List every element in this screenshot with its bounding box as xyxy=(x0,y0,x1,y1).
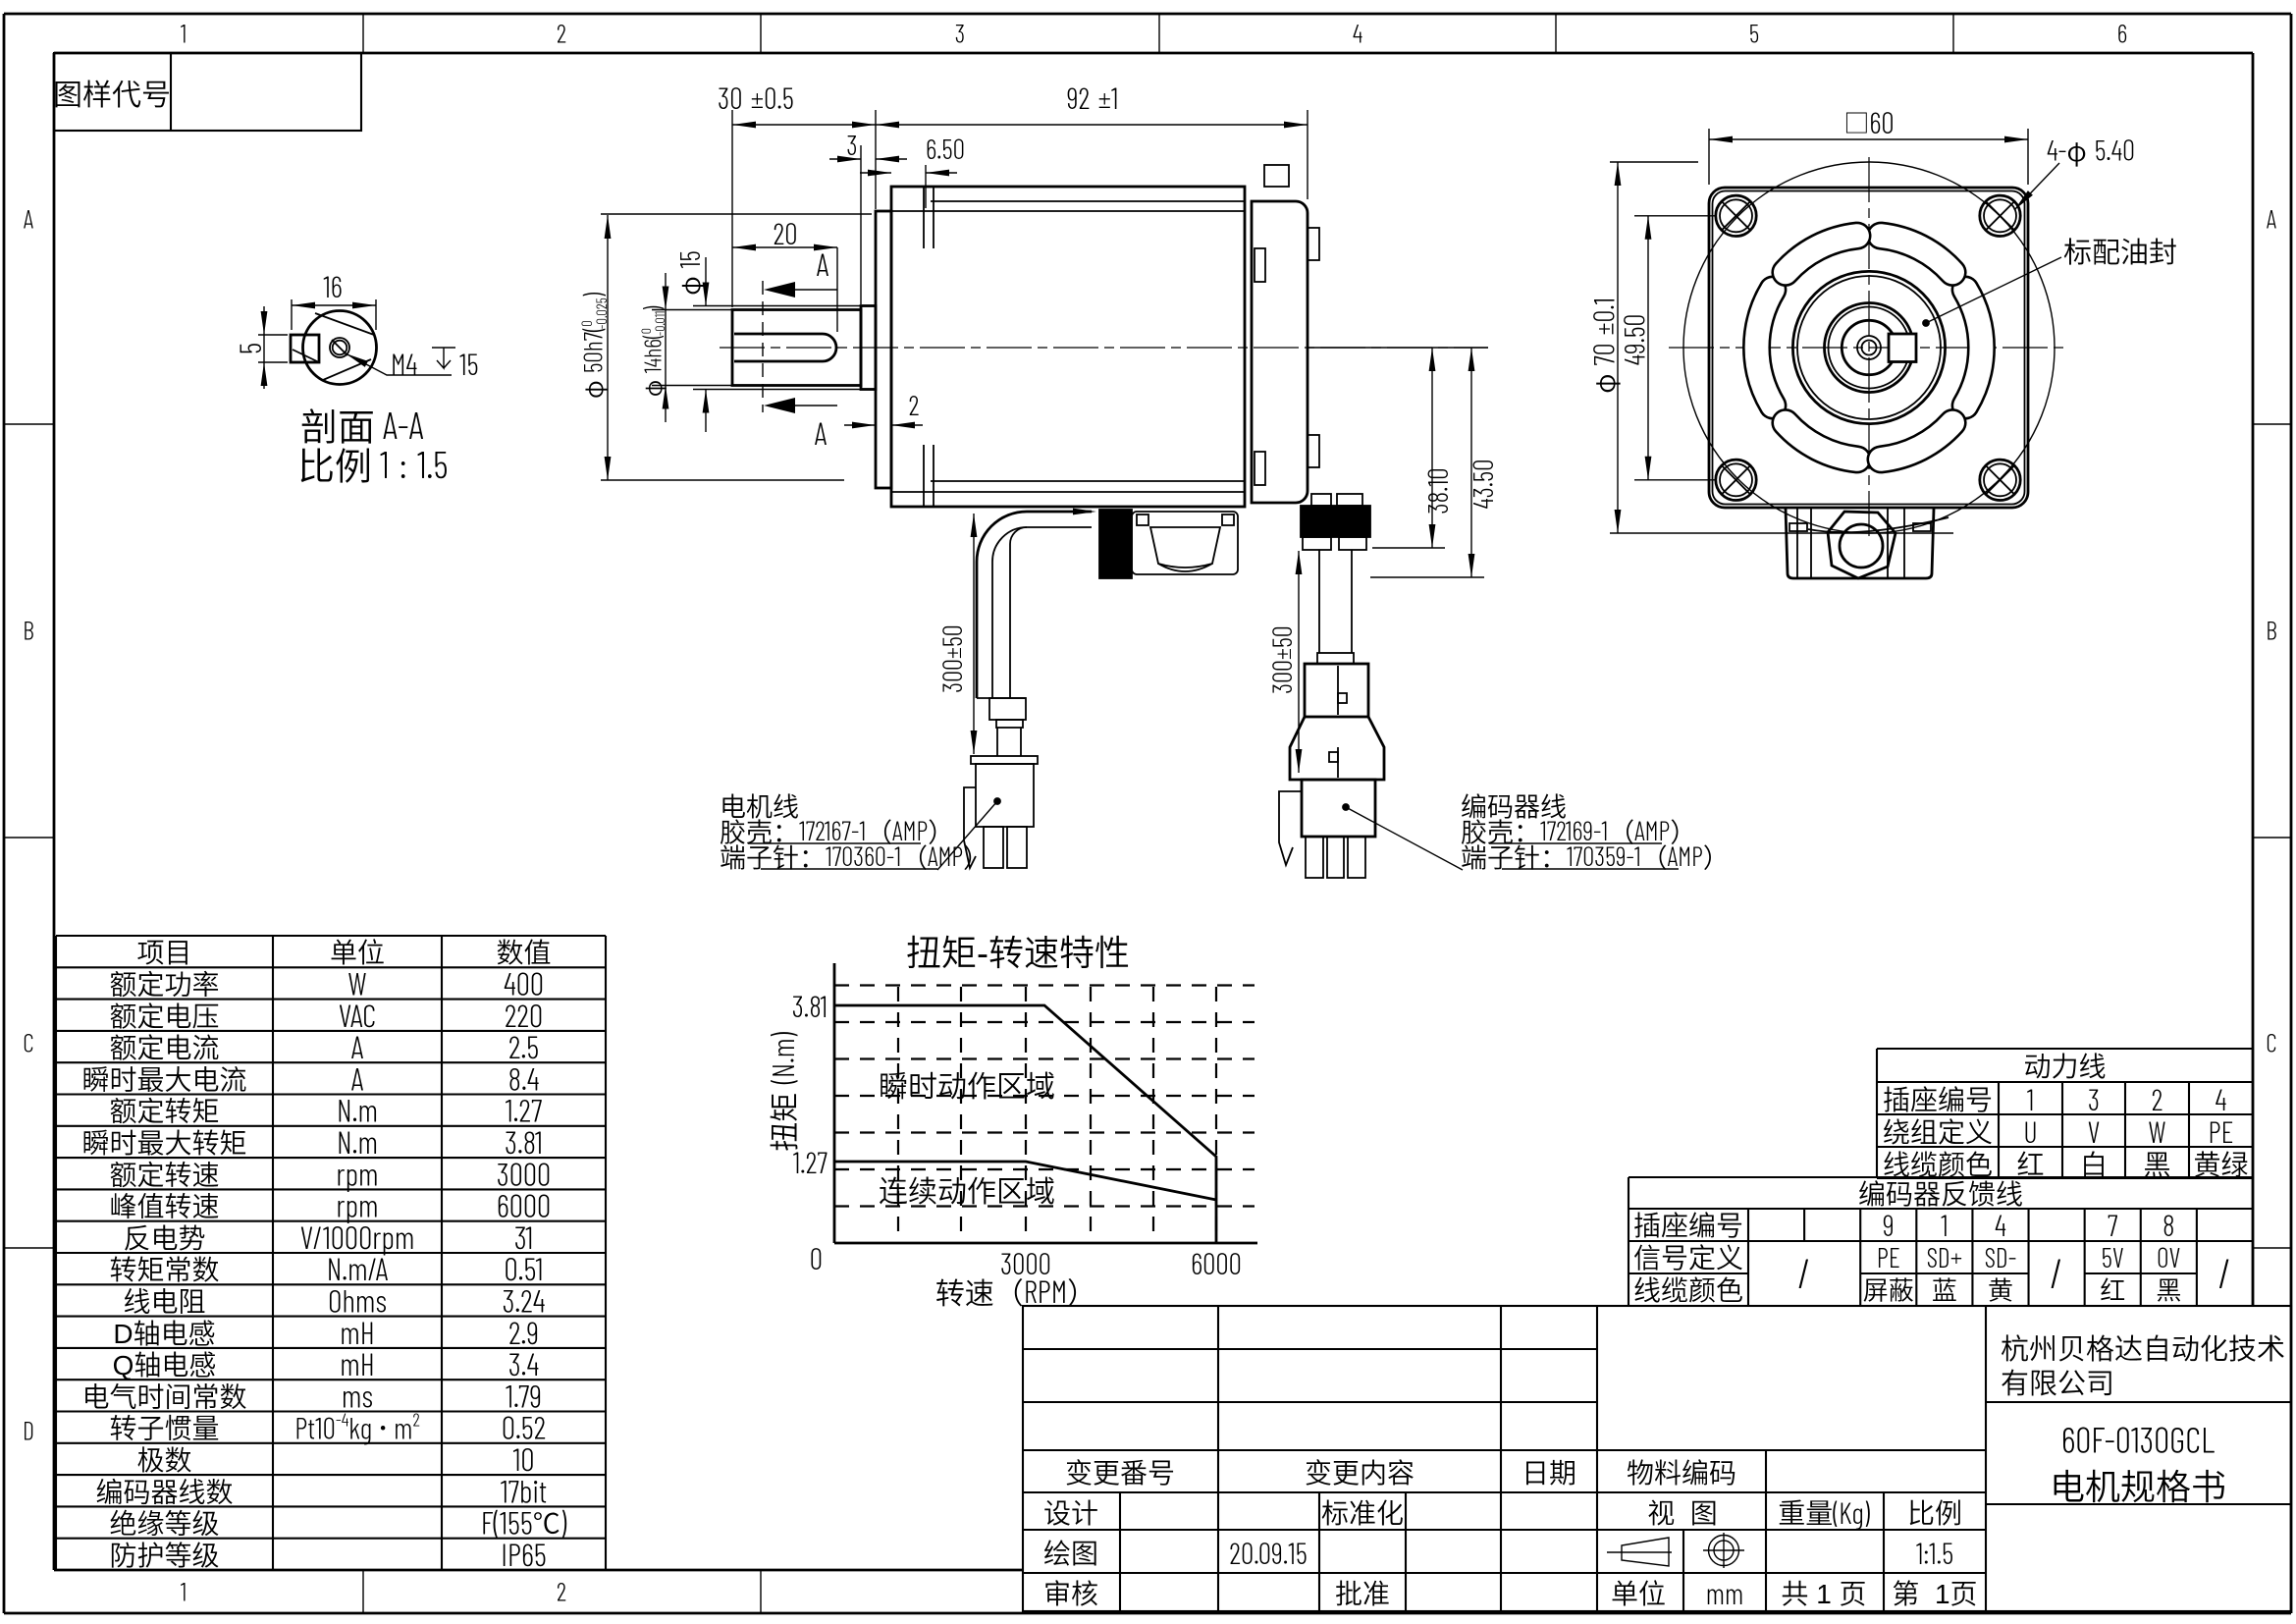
svg-text:设计: 设计 xyxy=(1043,1492,1098,1532)
svg-text:C: C xyxy=(23,1028,33,1058)
svg-text:3: 3 xyxy=(955,19,965,49)
svg-text:Pt10-4kg·m2: Pt10-4kg·m2 xyxy=(294,1407,420,1445)
svg-text:物料编码: 物料编码 xyxy=(1627,1452,1736,1491)
svg-text:瞬时动作区域: 瞬时动作区域 xyxy=(879,1062,1055,1106)
svg-text:92 ±1: 92 ±1 xyxy=(1067,80,1119,115)
svg-text:1:1.5: 1:1.5 xyxy=(1916,1535,1953,1570)
svg-text:8: 8 xyxy=(2163,1207,2175,1242)
svg-text:2: 2 xyxy=(2152,1081,2163,1116)
svg-text:A: A xyxy=(817,245,829,283)
svg-text:标配油封: 标配油封 xyxy=(2063,230,2177,271)
svg-text:绘图: 绘图 xyxy=(1043,1533,1098,1572)
svg-text:15: 15 xyxy=(459,346,479,381)
svg-text:单位: 单位 xyxy=(1611,1573,1666,1612)
svg-text:SD-: SD- xyxy=(1985,1240,2017,1273)
svg-text:6: 6 xyxy=(2117,19,2127,49)
svg-text:变更内容: 变更内容 xyxy=(1305,1452,1415,1491)
svg-text:/: / xyxy=(1798,1248,1811,1297)
svg-text:A: A xyxy=(815,414,828,452)
svg-text:标准化: 标准化 xyxy=(1321,1492,1404,1532)
svg-text:扭矩 (N.m): 扭矩 (N.m) xyxy=(761,1031,804,1151)
svg-text:变更番号: 变更番号 xyxy=(1065,1452,1175,1491)
svg-text:防护等级: 防护等级 xyxy=(109,1535,219,1574)
svg-text:批准: 批准 xyxy=(1335,1573,1390,1612)
svg-text:0: 0 xyxy=(810,1240,823,1275)
svg-text:A: A xyxy=(24,204,33,235)
svg-text:审核: 审核 xyxy=(1043,1573,1098,1612)
svg-text:38.10: 38.10 xyxy=(1420,467,1454,514)
svg-text:红: 红 xyxy=(2100,1272,2125,1308)
svg-text:电机规格书: 电机规格书 xyxy=(2050,1459,2226,1510)
svg-text:共 1 页: 共 1 页 xyxy=(1781,1573,1866,1612)
svg-text:B: B xyxy=(23,616,34,646)
svg-text:1: 1 xyxy=(1941,1207,1948,1242)
svg-text:比例: 比例 xyxy=(1907,1492,1962,1532)
svg-text:4: 4 xyxy=(1353,19,1362,49)
svg-text:SD+: SD+ xyxy=(1927,1240,1963,1273)
svg-text:/: / xyxy=(2051,1248,2063,1297)
svg-text:蓝: 蓝 xyxy=(1932,1272,1957,1308)
svg-text:5: 5 xyxy=(232,343,267,354)
svg-text:5: 5 xyxy=(1749,19,1759,49)
svg-text:有限公司: 有限公司 xyxy=(2001,1361,2114,1402)
svg-text:3.81: 3.81 xyxy=(792,988,828,1023)
svg-text:IP65: IP65 xyxy=(501,1536,546,1573)
svg-text:43.50: 43.50 xyxy=(1466,459,1499,509)
svg-text:300±50: 300±50 xyxy=(936,624,968,692)
svg-text:60F-0130GCL: 60F-0130GCL xyxy=(2061,1419,2215,1461)
svg-text:/: / xyxy=(2218,1248,2231,1297)
svg-text:日期: 日期 xyxy=(1522,1452,1576,1491)
svg-text:D: D xyxy=(23,1416,34,1446)
svg-text:屏蔽: 屏蔽 xyxy=(1863,1272,1914,1308)
svg-text:3: 3 xyxy=(2088,1081,2100,1116)
svg-text:6.50: 6.50 xyxy=(926,132,965,165)
svg-text:□60: □60 xyxy=(1843,104,1894,140)
svg-text:线缆颜色: 线缆颜色 xyxy=(1633,1270,1743,1309)
svg-text:20.09.15: 20.09.15 xyxy=(1229,1535,1308,1570)
svg-text:扭矩-转速特性: 扭矩-转速特性 xyxy=(906,925,1130,976)
svg-text:3: 3 xyxy=(846,128,857,161)
svg-text:黄: 黄 xyxy=(1988,1272,2013,1308)
svg-text:动力线: 动力线 xyxy=(2023,1046,2106,1085)
svg-text:2: 2 xyxy=(557,1577,566,1607)
svg-text:300±50: 300±50 xyxy=(1266,625,1298,693)
svg-text:黑: 黑 xyxy=(2156,1272,2181,1308)
svg-text:C: C xyxy=(2266,1028,2276,1058)
svg-text:2: 2 xyxy=(909,388,920,421)
svg-text:PE: PE xyxy=(1877,1240,1900,1273)
svg-text:4: 4 xyxy=(2216,1081,2227,1116)
svg-text:mm: mm xyxy=(1706,1575,1743,1610)
svg-text:1: 1 xyxy=(181,1577,187,1607)
svg-text:A: A xyxy=(2267,204,2276,235)
svg-text:第 1页: 第 1页 xyxy=(1892,1573,1977,1612)
svg-text:49.50: 49.50 xyxy=(1617,314,1651,366)
svg-text:视 图: 视 图 xyxy=(1647,1492,1718,1532)
svg-text:1: 1 xyxy=(181,19,187,49)
svg-text:1: 1 xyxy=(2027,1081,2034,1116)
svg-text:φ 15: φ 15 xyxy=(671,250,708,295)
svg-text:4: 4 xyxy=(1995,1207,2006,1242)
svg-text:B: B xyxy=(2266,616,2277,646)
svg-text:连续动作区域: 连续动作区域 xyxy=(879,1167,1055,1211)
svg-text:图样代号: 图样代号 xyxy=(53,71,171,114)
svg-text:20: 20 xyxy=(773,215,797,250)
svg-text:5V: 5V xyxy=(2102,1240,2124,1273)
svg-text:重量(Kg): 重量(Kg) xyxy=(1778,1492,1870,1532)
svg-text:9: 9 xyxy=(1883,1207,1895,1242)
svg-text:2: 2 xyxy=(557,19,566,49)
svg-text:4-φ 5.40: 4-φ 5.40 xyxy=(2047,131,2135,169)
svg-text:7: 7 xyxy=(2108,1207,2118,1242)
svg-text:6000: 6000 xyxy=(1191,1245,1242,1280)
svg-text:16: 16 xyxy=(323,268,343,303)
svg-text:0V: 0V xyxy=(2157,1240,2180,1273)
svg-text:30 ±0.5: 30 ±0.5 xyxy=(718,80,794,115)
svg-text:M4: M4 xyxy=(391,346,417,381)
